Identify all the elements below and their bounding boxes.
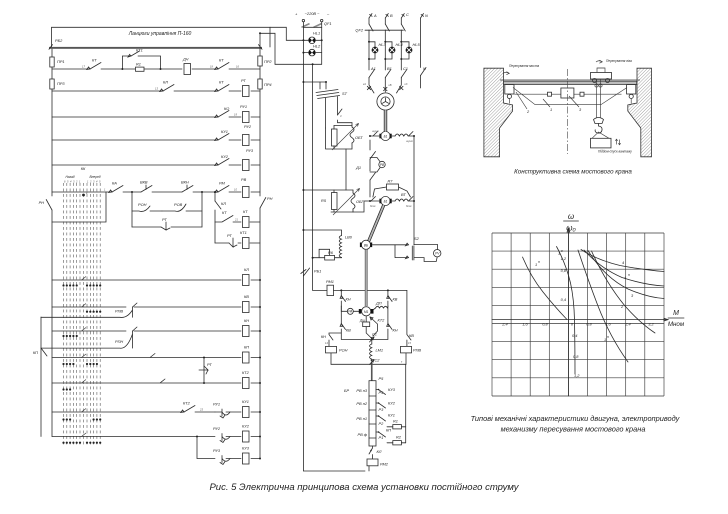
svg-text:РВ п3: РВ п3 xyxy=(356,388,367,393)
contact РПВ bypass xyxy=(41,307,133,317)
contact РН on right rail xyxy=(260,196,273,208)
coil КП xyxy=(243,345,262,364)
svg-text:КВ: КВ xyxy=(393,297,398,302)
svg-text:Рис. 5 Электрична принципова с: Рис. 5 Электрична принципова схема устан… xyxy=(209,482,519,493)
resistor R7 xyxy=(373,179,411,198)
wire second bus xyxy=(312,63,314,290)
svg-text:КТ1: КТ1 xyxy=(136,48,143,53)
svg-text:А: А xyxy=(373,13,377,18)
svg-text:КУ1: КУ1 xyxy=(242,399,249,404)
exciter machine ВБ xyxy=(360,240,372,249)
contact N xyxy=(421,66,427,76)
svg-text:Конструктивна схема мостового: Конструктивна схема мостового крана xyxy=(514,169,632,176)
resistor R6 xyxy=(312,249,342,260)
svg-text:ВКВ: ВКВ xyxy=(140,180,148,185)
contact КВ (lower left) xyxy=(340,306,351,339)
resistor R1 xyxy=(387,419,406,429)
chart dots row КУ2 xyxy=(62,442,101,444)
svg-text:Ланцюги управління П-160: Ланцюги управління П-160 xyxy=(128,31,192,37)
coil РТ xyxy=(241,78,249,97)
crane leader 1 xyxy=(543,99,552,112)
svg-text:КА: КА xyxy=(112,181,117,186)
svg-text:н: н xyxy=(628,273,630,277)
wire phase А vertical xyxy=(368,18,370,78)
thermal contact РТ between rungs xyxy=(199,357,212,385)
svg-text:ПР1: ПР1 xyxy=(57,59,65,64)
crane label move bridge xyxy=(503,64,539,75)
svg-text:~220В ~: ~220В ~ xyxy=(305,11,320,16)
crane right wall xyxy=(628,68,652,157)
svg-text:КП: КП xyxy=(244,345,249,350)
rung КУ3 branch wire xyxy=(197,437,260,459)
svg-text:0,8: 0,8 xyxy=(542,322,548,327)
contact РМ (rung6) xyxy=(215,181,238,193)
svg-text:КТ2: КТ2 xyxy=(242,370,250,375)
svg-text:КТ: КТ xyxy=(219,58,224,63)
svg-text:КВ: КВ xyxy=(409,333,414,338)
rung КЛ wire xyxy=(52,279,260,281)
svg-text:КН: КН xyxy=(346,297,351,302)
wire neutral N vertical xyxy=(420,18,422,88)
svg-text:ВКН: ВКН xyxy=(181,180,189,185)
svg-text:R5: R5 xyxy=(321,198,327,203)
svg-text:Р3: Р3 xyxy=(379,407,385,412)
svg-text:Назад: Назад xyxy=(66,175,75,179)
chart dots row КВ xyxy=(86,311,101,313)
graph label omega xyxy=(564,212,579,233)
time element РУ3 xyxy=(213,448,230,465)
contact ВКН (rung6) xyxy=(181,180,193,193)
svg-text:Вперед: Вперед xyxy=(90,175,101,179)
graph x axis xyxy=(492,318,668,321)
coil КЛ xyxy=(243,267,262,286)
svg-text:РУ3: РУ3 xyxy=(246,148,254,153)
contact КЛ (rung2) xyxy=(155,80,174,92)
coil РМ2 xyxy=(367,459,389,471)
brake motor М1 with brushes xyxy=(359,307,374,316)
svg-text:Пересування віза: Пересування віза xyxy=(606,59,632,63)
contact КЛ (branch) xyxy=(215,201,226,209)
svg-text:ω: ω xyxy=(568,212,574,221)
svg-text:КУ1: КУ1 xyxy=(388,413,395,418)
svg-text:РМ2: РМ2 xyxy=(380,462,389,467)
controller dashed position lines xyxy=(64,183,101,447)
rung КН wire xyxy=(52,327,260,331)
branch КЛ-КТ-КТ1 vertical xyxy=(214,191,216,243)
svg-text:КТ: КТ xyxy=(243,209,248,214)
crane right end truck xyxy=(627,85,636,104)
contact КУ2 (rung5) xyxy=(215,154,229,166)
time element РУ2 xyxy=(213,426,230,443)
contact КТ2 (shunt) xyxy=(370,317,385,336)
mechanical shaft Б1-ВБ xyxy=(368,205,385,242)
svg-text:КЛ: КЛ xyxy=(221,201,226,206)
svg-text:Б1: Б1 xyxy=(384,135,388,139)
capacitor С1 tap xyxy=(370,332,377,343)
graph curve 4n xyxy=(584,250,664,286)
svg-text:N: N xyxy=(423,66,426,71)
wire inner loop bottom xyxy=(341,338,388,340)
phase terminal N xyxy=(421,13,429,18)
svg-text:S2: S2 xyxy=(414,236,420,241)
svg-text:ПР2: ПР2 xyxy=(264,59,272,64)
svg-text:КТ: КТ xyxy=(219,80,224,85)
wire phase В vertical xyxy=(384,18,386,78)
svg-text:КП: КП xyxy=(386,428,391,433)
rung 5 wire xyxy=(52,164,260,166)
controller box bottom wire xyxy=(52,192,106,222)
contact А1 xyxy=(369,66,376,78)
svg-text:ВБ: ВБ xyxy=(364,243,368,247)
time element РУ1 xyxy=(213,402,230,419)
svg-text:1: 1 xyxy=(604,337,606,342)
generator Б1 lower xyxy=(366,192,414,208)
fuse ПР2 xyxy=(258,56,273,66)
svg-text:КП: КП xyxy=(33,350,38,355)
induction motor М xyxy=(377,93,394,110)
svg-text:БР: БР xyxy=(344,388,350,393)
svg-text:РУ2: РУ2 xyxy=(213,426,221,431)
graph curve 4 xyxy=(581,250,664,272)
svg-text:R2: R2 xyxy=(396,435,402,440)
svg-text:ОБГ: ОБГ xyxy=(356,199,365,204)
contact КН (hoist down) xyxy=(340,290,351,306)
contact КТ2 (rung КУ1) xyxy=(181,401,204,413)
svg-text:R6: R6 xyxy=(328,250,334,255)
svg-text:Р5: Р5 xyxy=(379,376,385,381)
rung 2 wire xyxy=(52,90,260,92)
svg-text:В: В xyxy=(390,13,393,18)
svg-text:РПН: РПН xyxy=(115,339,123,344)
svg-text:шунт: шунт xyxy=(372,130,380,133)
lamp HL3 xyxy=(368,41,386,60)
svg-text:КТ1: КТ1 xyxy=(240,230,247,235)
rung 3 wire xyxy=(52,116,260,118)
wire top double bus xyxy=(49,45,262,50)
winding ОБТ upper with resistor xyxy=(326,123,364,150)
thermal contact РТ (branch) xyxy=(215,233,241,247)
rung 1 wire xyxy=(52,68,260,70)
svg-text:ST: ST xyxy=(342,91,348,96)
graph curve 1n xyxy=(578,250,628,362)
contact 3 on ST output xyxy=(338,109,353,123)
coil РМ1 xyxy=(313,279,334,296)
svg-text:блок: блок xyxy=(370,204,376,208)
resistor R1 xyxy=(136,62,145,72)
lamp HL5 xyxy=(400,41,420,60)
svg-text:1: 1 xyxy=(535,262,537,267)
svg-text:ПР4: ПР4 xyxy=(264,82,272,87)
svg-text:РОН: РОН xyxy=(339,348,348,353)
svg-text:кА: кА xyxy=(363,82,366,86)
lamp HL1 xyxy=(303,31,322,44)
coil КТ2 xyxy=(242,370,261,389)
svg-text:HL2: HL2 xyxy=(313,44,321,49)
contact РН on left rail xyxy=(39,200,52,211)
svg-text:С1: С1 xyxy=(403,66,408,71)
crane load xyxy=(591,132,612,148)
svg-text:РПВ: РПВ xyxy=(413,348,421,353)
svg-text:R1: R1 xyxy=(393,419,398,424)
svg-text:КУ1: КУ1 xyxy=(221,129,228,134)
lamp HL2 xyxy=(302,44,321,56)
wire left rail xyxy=(51,49,53,437)
contact КУ2 tap xyxy=(376,401,396,409)
svg-text:КВ: КВ xyxy=(346,328,351,333)
svg-text:КЛ: КЛ xyxy=(244,267,249,272)
chart dots row КП xyxy=(62,363,98,365)
svg-text:0,4: 0,4 xyxy=(561,297,567,302)
fuse ПР4 xyxy=(258,79,273,89)
rung КУ2 wire xyxy=(52,436,260,438)
chart dots row КТ2 xyxy=(62,388,71,390)
svg-text:Типові механічні характеристик: Типові механічні характеристики двигуна,… xyxy=(471,414,681,423)
svg-text:КУ3: КУ3 xyxy=(388,387,396,392)
crane left wall xyxy=(484,68,513,157)
crane hook block xyxy=(594,118,604,134)
svg-text:КЛ: КЛ xyxy=(377,449,382,454)
crane truss xyxy=(513,88,627,105)
rung 6 wire xyxy=(52,191,260,193)
graph y axis xyxy=(567,228,570,396)
svg-text:С2: С2 xyxy=(375,358,381,363)
resistor R2 xyxy=(387,435,406,445)
coil РОН xyxy=(326,346,348,364)
svg-text:КУ3: КУ3 xyxy=(242,446,250,451)
winding LВ0 xyxy=(302,229,352,258)
svg-text:В1: В1 xyxy=(387,66,392,71)
generator Б1 (exciter group) upper xyxy=(370,130,414,143)
svg-text:РТ: РТ xyxy=(162,217,167,222)
wire contactor rung xyxy=(334,289,407,291)
svg-text:0,8: 0,8 xyxy=(586,322,592,327)
controller rung contact kicks xyxy=(82,277,87,437)
wire right bus xyxy=(413,136,415,245)
saturation reactor ST xyxy=(316,90,348,129)
svg-text:РУ1: РУ1 xyxy=(213,402,220,407)
ammeter РА xyxy=(341,306,359,314)
tap bus wire xyxy=(405,364,407,443)
svg-text:М1: М1 xyxy=(364,310,369,314)
svg-text:РБ2: РБ2 xyxy=(55,38,63,43)
svg-text:21: 21 xyxy=(234,218,238,222)
svg-text:КТ2: КТ2 xyxy=(378,318,386,323)
wire outer loop bottom xyxy=(331,361,406,378)
svg-text:ОБТ: ОБТ xyxy=(355,135,363,140)
rung КУ1 wire xyxy=(52,411,260,413)
svg-text:N: N xyxy=(425,13,428,18)
coil РУ1 xyxy=(240,104,249,123)
coil РУ3 xyxy=(243,148,254,171)
contact РБ1 on dc bus xyxy=(301,268,321,276)
coil КУ3 xyxy=(242,446,261,465)
svg-text:КТ2: КТ2 xyxy=(183,401,191,406)
svg-text:Підйом-спуск вантажу: Підйом-спуск вантажу xyxy=(598,150,632,154)
wire right rail to panel bottom xyxy=(259,32,275,64)
svg-text:РМ1: РМ1 xyxy=(326,279,334,284)
coil КТ xyxy=(243,209,261,228)
svg-text:КН: КН xyxy=(244,318,249,323)
svg-text:Пересування моста: Пересування моста xyxy=(509,64,539,68)
contact РПН bypass xyxy=(41,331,133,348)
svg-text:ДЧ: ДЧ xyxy=(182,57,189,62)
svg-text:R1: R1 xyxy=(136,62,141,67)
wire control box top to lamp bus xyxy=(270,27,304,41)
svg-text:кС: кС xyxy=(405,82,408,86)
svg-text:кВ: кВ xyxy=(389,83,392,87)
svg-text:Д1: Д1 xyxy=(355,165,361,170)
svg-text:КН: КН xyxy=(321,334,326,339)
contact Д1 column xyxy=(355,140,375,197)
svg-text:КУ2: КУ2 xyxy=(388,401,396,406)
control circuits box xyxy=(52,27,271,47)
contact КТ (rung1) xyxy=(82,58,101,70)
svg-text:LВ0: LВ0 xyxy=(345,235,353,240)
svg-text:шунт: шунт xyxy=(406,140,414,143)
coil РПВ xyxy=(401,346,422,364)
crane left end truck xyxy=(505,85,514,104)
capacitor С2 tap xyxy=(370,358,381,365)
connector marks and converging wires to motor xyxy=(363,78,408,93)
wire bypass verticals РОН/РОВ xyxy=(131,191,203,227)
svg-text:Р1: Р1 xyxy=(379,435,384,440)
svg-text:QF2: QF2 xyxy=(355,28,363,33)
contact КН (lower right) xyxy=(387,306,398,339)
graph curve 3 xyxy=(588,251,664,299)
svg-text:РН: РН xyxy=(39,200,45,205)
coil КУ1 xyxy=(242,399,261,418)
graph curve 1v xyxy=(557,247,576,375)
coil КУ2 xyxy=(242,424,261,443)
wire left auxiliary rail xyxy=(40,317,42,437)
svg-text:блок: блок xyxy=(406,204,412,208)
svg-text:Мном: Мном xyxy=(668,321,685,328)
breaker QF1 xyxy=(302,21,332,27)
graph grid xyxy=(492,233,664,396)
wire phase С vertical xyxy=(400,18,402,78)
contact КЛ bottom xyxy=(369,446,382,459)
phase terminal В xyxy=(385,13,393,18)
coil КВ xyxy=(243,294,262,313)
svg-text:механизму пересування мостовог: механизму пересування мостового крана xyxy=(501,425,646,434)
svg-text:HL1: HL1 xyxy=(313,31,320,36)
resistor Дш xyxy=(359,316,372,339)
svg-text:3,2: 3,2 xyxy=(648,322,654,327)
svg-text:КУ2: КУ2 xyxy=(242,424,250,429)
resistor tap labels xyxy=(344,388,368,437)
controller position labels xyxy=(64,175,101,184)
wire right rail xyxy=(259,47,261,459)
svg-text:0,8: 0,8 xyxy=(573,354,579,359)
graph x tick labels xyxy=(501,322,654,327)
svg-text:КН: КН xyxy=(393,328,398,333)
phase terminal С xyxy=(401,12,409,18)
svg-text:ДП: ДП xyxy=(375,301,382,306)
rung КТ2 wire xyxy=(52,379,260,383)
chart dots row КУ1 xyxy=(62,418,101,420)
svg-text:1,6: 1,6 xyxy=(522,322,528,327)
rung КВ wire xyxy=(52,303,260,307)
starting resistor stack Р5-Р1 xyxy=(369,364,384,446)
svg-text:РУ3: РУ3 xyxy=(213,448,221,453)
graph caption xyxy=(471,414,681,434)
rung КП wire xyxy=(52,354,260,358)
wire left dc bus xyxy=(303,82,365,471)
crane trolley xyxy=(591,68,612,83)
crane leader 3 xyxy=(569,96,582,112)
armature feed from exciter xyxy=(365,250,367,307)
lamp panel frame xyxy=(275,27,322,82)
crane leader 2 xyxy=(516,92,530,114)
svg-text:КТ: КТ xyxy=(222,210,227,215)
contact КН РОН branch xyxy=(321,333,341,346)
node К on controller center xyxy=(82,191,88,196)
winding ОБГ lower with resistor R5 xyxy=(302,189,366,216)
svg-text:2,4: 2,4 xyxy=(501,322,508,327)
crane hoist ropes xyxy=(595,79,602,118)
svg-text:РТ: РТ xyxy=(207,362,212,367)
contact КП on left rail xyxy=(33,348,47,356)
svg-text:КК: КК xyxy=(81,166,86,171)
fuse ПР3 xyxy=(50,79,66,89)
rung 4 wire xyxy=(52,139,260,141)
contact ВКВ (rung6) xyxy=(140,180,152,193)
svg-text:п: п xyxy=(538,260,540,264)
chart dots row КН xyxy=(62,335,77,337)
svg-text:РМ: РМ xyxy=(219,181,226,186)
svg-text:ω₀: ω₀ xyxy=(566,224,576,233)
centrifugal switch S2 xyxy=(372,236,441,262)
winding LМ1 xyxy=(370,339,384,359)
svg-text:QF1: QF1 xyxy=(324,21,332,26)
coil КН xyxy=(243,318,262,337)
graph curve 1p xyxy=(523,257,567,319)
svg-text:РУ2: РУ2 xyxy=(244,124,252,129)
svg-text:LМ1: LМ1 xyxy=(376,348,384,353)
breaker QF2 xyxy=(355,24,405,33)
svg-text:РОВ: РОВ xyxy=(174,202,183,207)
svg-text:Б1: Б1 xyxy=(384,200,388,204)
contact КТ (rung1 right) xyxy=(210,58,239,70)
svg-text:РПВ: РПВ xyxy=(115,309,123,314)
svg-text:КЛ: КЛ xyxy=(163,80,168,85)
contact РОВ xyxy=(162,202,202,211)
svg-text:РВ п1: РВ п1 xyxy=(356,416,367,421)
svg-text:2,4: 2,4 xyxy=(624,322,631,327)
svg-text:КУ2: КУ2 xyxy=(221,154,229,159)
contact КУ3 tap xyxy=(376,387,396,395)
svg-text:н: н xyxy=(607,335,609,339)
coil РВ xyxy=(241,177,249,198)
svg-text:ПР3: ПР3 xyxy=(57,81,65,86)
graph curve 2 xyxy=(592,251,656,333)
contact КП tap xyxy=(376,428,391,438)
svg-text:HL4: HL4 xyxy=(396,42,404,47)
voltmeter РВ2 xyxy=(370,158,385,173)
contact КО (rung3) xyxy=(215,106,238,118)
contact КВ РПВ branch xyxy=(407,290,414,346)
svg-text:РБ1: РБ1 xyxy=(314,269,321,274)
contact КУ1 (rung4) xyxy=(215,129,229,141)
supply ~220V terminals xyxy=(295,11,330,22)
shaft motor to Б1 xyxy=(384,110,387,132)
svg-text:КТ: КТ xyxy=(92,58,97,63)
svg-text:РВ: РВ xyxy=(241,177,247,182)
wire ST feed xyxy=(302,81,327,89)
svg-text:РН: РН xyxy=(267,196,273,201)
crane label hoist xyxy=(598,139,632,153)
svg-text:РТ: РТ xyxy=(241,78,246,83)
